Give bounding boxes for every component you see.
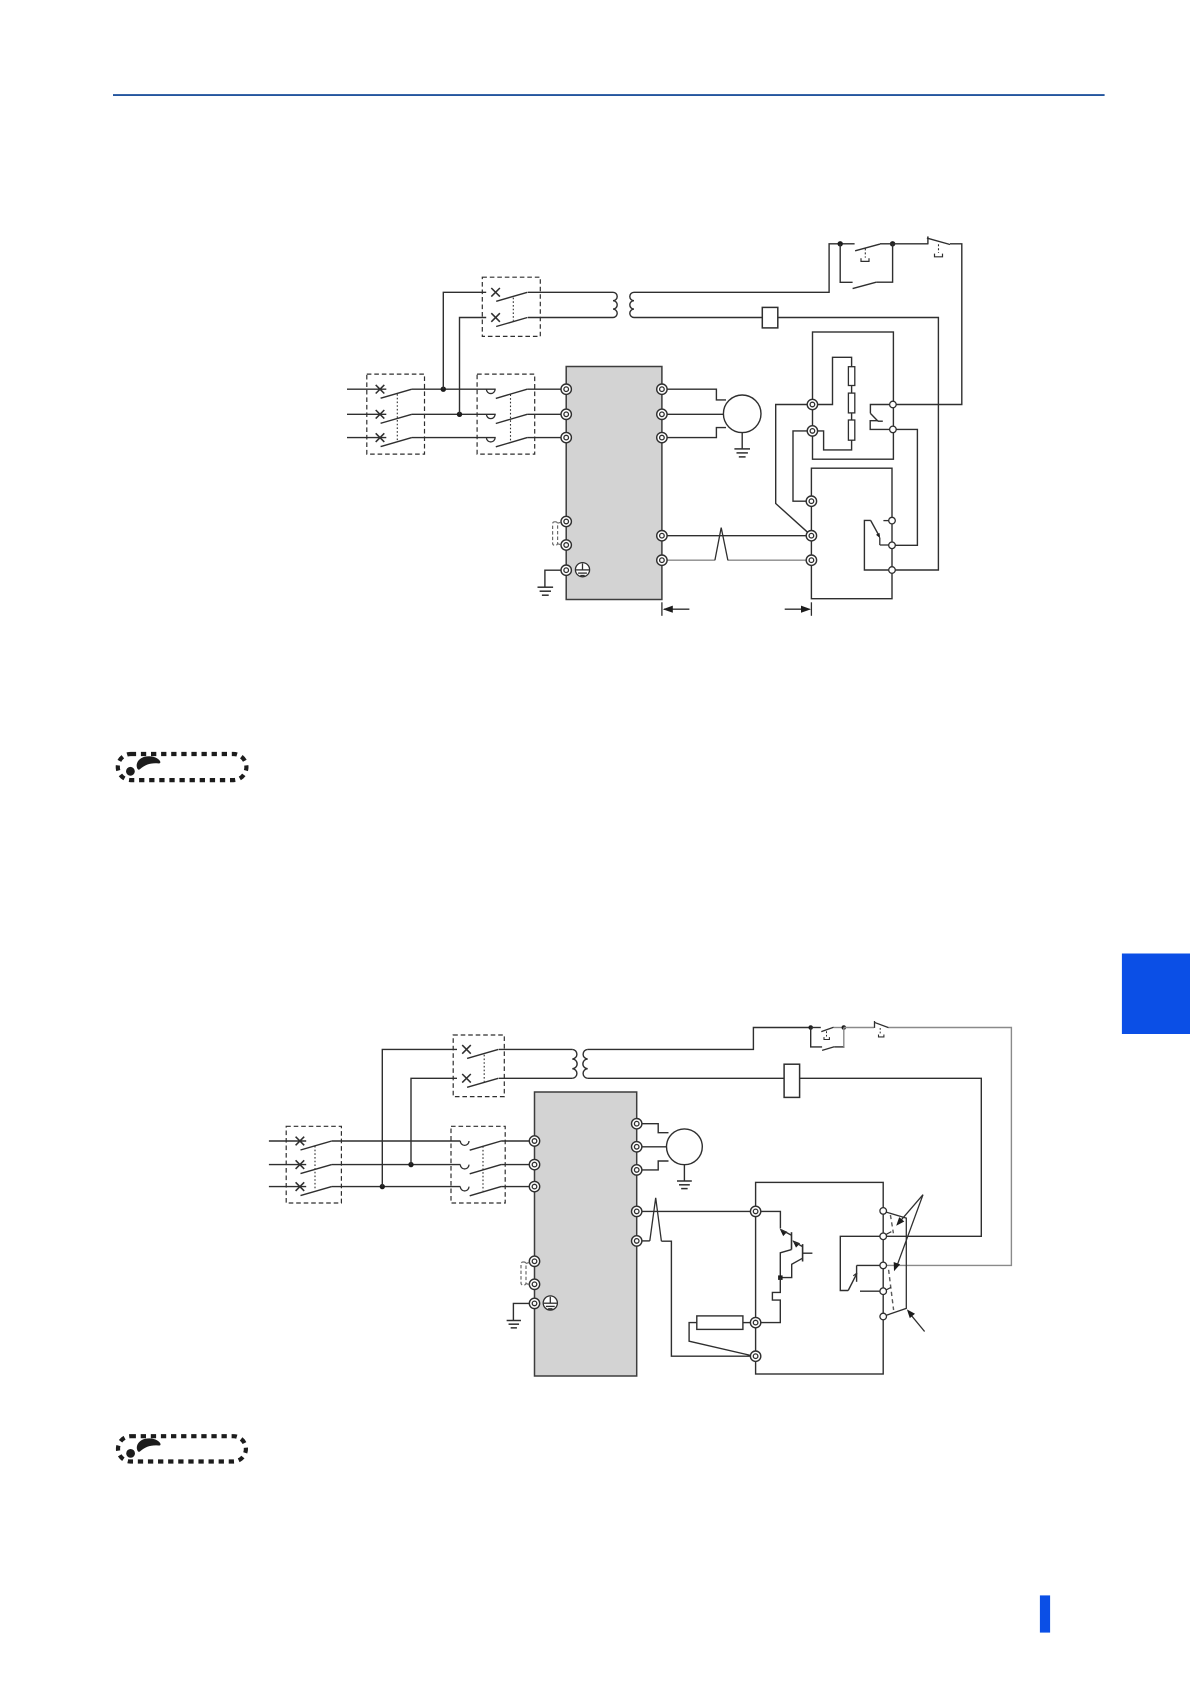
- D1 motor ground: [741, 433, 743, 449]
- D1 resistor unit wire from terminal riser: [776, 405, 813, 536]
- D1 control circuit top rail: [840, 243, 854, 245]
- D1 inverter input terminals R S T: [561, 384, 571, 394]
- D1 MC poles: [486, 389, 495, 393]
- D2 earth wire and ground symbol: [513, 1303, 534, 1320]
- D2 inverter jumper terminals PR PX: [529, 1256, 539, 1266]
- D1 thermal relay contact in resistor unit: [870, 405, 889, 414]
- D1 inverter output terminals U V W: [657, 384, 667, 394]
- D1 wire PR to brake unit (grey): [662, 559, 715, 561]
- D2 transistor emitter and collector join: [780, 1250, 791, 1278]
- D2 wire PR with tall break symbol: [637, 1240, 650, 1242]
- note callout 2 dashed box: [118, 1436, 246, 1461]
- D2 MC linkage dotted line: [482, 1146, 484, 1191]
- D1 dimension arrow right: [785, 608, 810, 610]
- D2 MCCB poles: [296, 1137, 305, 1146]
- D1 brake unit terminal link from resistor unit: [793, 431, 807, 501]
- D2 junction node S-phase tap: [408, 1162, 413, 1167]
- D2 MC contactor dashed box: [451, 1126, 505, 1203]
- D1 wire resistor unit pin2 to brake unit pin2: [892, 429, 917, 545]
- D1 stop pushbutton NC contact: [893, 243, 929, 245]
- D1 wire P to brake unit: [662, 535, 812, 537]
- D1 MC operation coil: [762, 307, 778, 328]
- D2 PR-PX dashed jumper: [521, 1262, 526, 1285]
- D2 stop NC contact: [844, 1027, 874, 1029]
- D2 motor: [667, 1129, 703, 1165]
- D1 control-power MCCB dashed box: [482, 277, 540, 336]
- D2 relay operation coil: [784, 1064, 800, 1097]
- D1 wires control MCCB to transformer: [528, 291, 613, 293]
- D1 dimension tick right: [810, 602, 812, 616]
- D1 resistor chain inner wiring bottom: [812, 431, 851, 450]
- D1 inverter P PR terminals: [657, 531, 667, 541]
- D2 inverter input terminals R S T: [529, 1136, 539, 1146]
- D1 earth wire and ground symbol: [545, 570, 566, 587]
- D1 MC contactor dashed box: [477, 374, 535, 454]
- D1 junction node R-phase tap: [441, 387, 446, 392]
- D2 annotation arrow to upper connector: [899, 1195, 923, 1223]
- header rule: [113, 94, 1105, 96]
- D2 wire W with jog to motor: [637, 1161, 669, 1170]
- D2 control MCCB poles: [462, 1045, 471, 1054]
- D2 annotation arrow to connector bottom: [910, 1313, 925, 1331]
- D1 wires MCCB to MC: [412, 388, 496, 390]
- D1 start pushbutton NO contact: [855, 244, 880, 251]
- D1 three-phase supply lines: [347, 388, 386, 390]
- D1 inverter jumper terminals PR PX: [561, 516, 571, 526]
- D1 brake unit box: [811, 468, 892, 599]
- D2 coil wire to BU connector pin2: [800, 1078, 982, 1236]
- D1 tap wire S to control MCCB line2: [460, 318, 487, 415]
- D2 tap wire S to control MCCB line2: [411, 1078, 457, 1164]
- D2 motor ground: [683, 1165, 685, 1181]
- D1 secondary bottom wire to operation coil: [634, 317, 762, 319]
- D2 MCCB dashed box: [286, 1126, 341, 1203]
- D2 MCCB linkage dotted line: [314, 1146, 316, 1190]
- D1 resistor R2: [848, 393, 854, 413]
- chapter side tab: [1122, 954, 1190, 1035]
- D2 wires MC to inverter: [501, 1140, 534, 1142]
- D2 connector pin4 stub: [860, 1290, 883, 1292]
- D1 resistor R3: [848, 420, 854, 440]
- D1 junction node B: [890, 241, 895, 246]
- D2 secondary top wire to control rail: [588, 1028, 811, 1050]
- D2 control-power MCCB dashed box: [453, 1035, 504, 1097]
- D1 control MCCB poles: [491, 288, 500, 297]
- D1 MCCB (no-fuse breaker) dashed box: [367, 374, 425, 454]
- D2 resistor left lead to N terminal: [689, 1323, 753, 1356]
- D1 inverter main box: [566, 367, 662, 600]
- D1 resistor unit relay pins: [890, 401, 897, 408]
- D1 resistor chain inner wiring top: [812, 357, 851, 404]
- D1 transformer secondary winding: [630, 292, 634, 317]
- D2 wire U with jog to motor: [637, 1124, 669, 1133]
- D1 protective earth symbol: [575, 563, 589, 577]
- D2 inverter main box: [535, 1092, 637, 1376]
- D2 control MCCB linkage dotted line: [483, 1055, 485, 1082]
- D1 brake unit internal contact: [883, 520, 888, 522]
- D2 connector outline: [886, 1212, 907, 1315]
- D2 inverter output terminals U V W: [632, 1119, 642, 1129]
- D1 PR-PX dashed jumper: [553, 522, 558, 545]
- D1 wire W with jog to motor: [662, 428, 726, 438]
- D2 transistor darlington pair: [780, 1229, 788, 1236]
- D2 brake unit box: [756, 1182, 884, 1374]
- D2 junction node T-phase tap: [380, 1184, 385, 1189]
- D2 transformer secondary winding: [583, 1049, 588, 1078]
- D2 internal relay contact: [840, 1236, 883, 1290]
- note callout 1 dashed box: [118, 754, 247, 780]
- D1 secondary top wire to control circuit riser: [634, 244, 840, 292]
- D2 tap wire T to control MCCB line1: [382, 1049, 457, 1186]
- D1 tap wire R to control MCCB line1: [443, 292, 486, 389]
- D2 protective earth symbol: [543, 1296, 557, 1310]
- D1 dimension arrow left: [664, 608, 689, 610]
- D1 MCCB linkage dotted line: [396, 394, 398, 441]
- D2 secondary bottom wire to coil: [588, 1077, 784, 1079]
- D2 discharge resistor: [697, 1316, 743, 1330]
- D1 junction node S-phase tap: [457, 412, 462, 417]
- D1 transformer primary winding: [613, 292, 617, 317]
- D2 MC poles: [460, 1141, 469, 1145]
- D2 annotation arrow to lower connector: [897, 1195, 923, 1267]
- D2 wire junction to PR terminal with jog: [761, 1278, 781, 1323]
- D2 wires control MCCB to transformer: [499, 1048, 573, 1050]
- D2 connector pins: [880, 1208, 887, 1215]
- D1 MCCB poles: [376, 385, 385, 394]
- D2 brake unit terminals: [750, 1206, 760, 1216]
- D1 brake unit right pins: [889, 517, 896, 524]
- D1 discharge resistor unit box: [813, 332, 894, 459]
- D1 dimension tick left: [661, 602, 663, 616]
- D2 transistor gate lead: [803, 1252, 813, 1254]
- D1 wires MC to inverter R S T: [527, 388, 566, 390]
- D2 transformer primary winding: [572, 1049, 577, 1078]
- D1 wire V to motor: [662, 413, 724, 415]
- D1 motor: [723, 395, 761, 433]
- D1 wire NC contact to brake unit terminal riser: [893, 244, 962, 405]
- D1 resistor unit terminals: [807, 399, 817, 409]
- D1 cable break symbol: [715, 528, 728, 561]
- D2 connector pin ticks: [886, 1232, 891, 1235]
- D1 wire U with jog to motor: [662, 389, 726, 400]
- D2 inverter P PR terminals: [632, 1206, 642, 1216]
- D2 control rail and start contact: [808, 1025, 813, 1030]
- D2 grey wire stop contact to BU connector: [883, 1028, 1011, 1266]
- D1 MC self-holding contact branch: [840, 244, 852, 282]
- D2 connector dashed mating lines: [890, 1215, 893, 1233]
- D1 MC linkage dotted line: [510, 394, 512, 442]
- D1 resistor R1: [848, 367, 854, 386]
- D2 brake transistor collector wire: [761, 1211, 781, 1228]
- D2 self-holding branch: [811, 1028, 822, 1047]
- D2 wires MCCB to MC: [332, 1140, 461, 1142]
- D1 coil wire to relay box pin riser: [778, 318, 939, 571]
- D1 control MCCB linkage dotted line: [512, 298, 514, 321]
- D2 wire V to motor: [637, 1146, 667, 1148]
- page number marker bar: [1040, 1595, 1050, 1632]
- D1 junction node A: [838, 241, 843, 246]
- note icon swoosh 1: [126, 756, 160, 775]
- D2 wire P to brake unit: [637, 1210, 756, 1212]
- note icon swoosh 2: [126, 1438, 160, 1457]
- D1 brake unit left terminals: [806, 496, 816, 506]
- D2 three-phase supply lines: [269, 1140, 306, 1142]
